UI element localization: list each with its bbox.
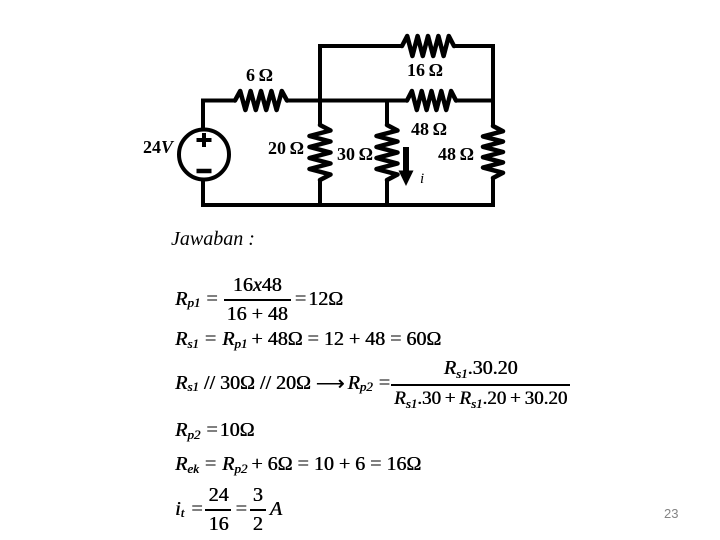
- wire: bottom horizontal rail: [201, 203, 495, 207]
- equation Rs1: [175, 328, 441, 351]
- current arrow i: [399, 147, 414, 186]
- wire: vertical at node A below 20ohm: [318, 179, 322, 207]
- svg-text:48 Ω: 48 Ω: [411, 119, 447, 139]
- wire: top horizontal, left of 16ohm: [318, 44, 403, 48]
- resistor 48ohm (horizontal, middle wire): [407, 91, 456, 110]
- resistor 20ohm (vertical): [310, 125, 331, 180]
- resistor 48ohm (vertical, right rail): [483, 126, 503, 178]
- equation Rp1: [175, 277, 343, 321]
- wire: top horizontal, right of 16ohm: [453, 44, 495, 48]
- wire: middle horizontal, source corner to 6ohm: [201, 99, 236, 103]
- equation Rp2: [175, 419, 254, 442]
- voltage source minus sign: [197, 169, 212, 174]
- resistor 16ohm (horizontal, top wire): [402, 36, 454, 56]
- wire: right rail below 48ohm: [491, 177, 495, 207]
- svg-text:6 Ω: 6 Ω: [246, 65, 273, 85]
- resistor 6ohm (horizontal, middle wire): [235, 91, 287, 110]
- resistor 30ohm (vertical): [377, 125, 398, 180]
- wire: left vertical top (source to middle wire): [201, 99, 205, 131]
- svg-text:16 Ω: 16 Ω: [407, 60, 443, 80]
- svg-text:30 Ω: 30 Ω: [337, 144, 373, 164]
- wire: vertical at node A (x=320), top wire to 20ohm: [318, 44, 322, 126]
- voltage source plus sign: [197, 133, 212, 147]
- equation it: [175, 486, 282, 532]
- svg-text:20 Ω: 20 Ω: [268, 138, 304, 158]
- wire: vertical at node B (x=387), middle wire to 30ohm: [385, 99, 389, 127]
- wire: middle horizontal, 48ohm to right rail: [455, 99, 495, 103]
- svg-text:24V: 24V: [143, 137, 175, 157]
- voltage source 24V circle: [179, 130, 229, 180]
- equation Rek: [175, 453, 421, 476]
- wire: middle horizontal, 6ohm to 48ohm: [286, 99, 408, 103]
- svg-text:i: i: [420, 171, 424, 187]
- page number: [664, 506, 678, 521]
- svg-text:48 Ω: 48 Ω: [438, 144, 474, 164]
- equation Rs1 parallel: [175, 359, 570, 407]
- wire: right rail, top wire down to 48ohm: [491, 44, 495, 127]
- wire: vertical at node B below 30ohm: [385, 179, 389, 207]
- heading Jawaban: [171, 228, 255, 251]
- wire: left vertical bottom (source to bottom wire): [201, 180, 205, 207]
